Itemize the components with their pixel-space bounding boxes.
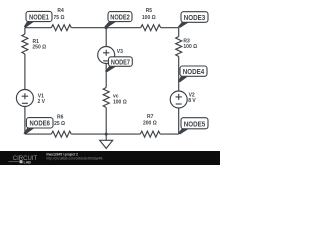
svg-text:75 Ω: 75 Ω bbox=[54, 15, 65, 21]
svg-text:8 V: 8 V bbox=[188, 98, 196, 104]
node NODE5 bbox=[178, 118, 208, 135]
svg-text:100 Ω: 100 Ω bbox=[142, 15, 156, 21]
svg-text:2 V: 2 V bbox=[38, 99, 46, 105]
svg-text:NODE4: NODE4 bbox=[183, 69, 205, 76]
V3 minus sign bbox=[103, 60, 109, 62]
wire middle column upper bbox=[105, 28, 107, 47]
resistor R6 bbox=[51, 131, 71, 137]
junction dot ground node bbox=[105, 133, 108, 136]
wire bottom-left to R6 bbox=[25, 133, 51, 135]
wire V2 to bottom-right corner bbox=[178, 108, 180, 134]
voltage source V2 bbox=[170, 91, 187, 108]
svg-text:R4: R4 bbox=[57, 8, 64, 14]
svg-text:NODE6: NODE6 bbox=[29, 121, 50, 128]
footer logo chip bbox=[20, 160, 23, 163]
node NODE4 bbox=[178, 66, 207, 82]
node NODE3 bbox=[178, 12, 208, 28]
resistor R4 bbox=[51, 25, 71, 31]
resistor R3 bbox=[176, 37, 182, 57]
wire vc to bottom bbox=[105, 108, 107, 135]
svg-text:R5: R5 bbox=[146, 8, 153, 14]
wire R1 to V1 bbox=[24, 54, 26, 90]
wire V3 to vc bbox=[105, 64, 107, 88]
svg-text:NODE5: NODE5 bbox=[184, 121, 206, 128]
svg-text:25 Ω: 25 Ω bbox=[54, 121, 65, 127]
wire R6 to ground junction bbox=[71, 133, 140, 135]
resistor R1 bbox=[22, 34, 28, 54]
svg-text:250 Ω: 250 Ω bbox=[32, 45, 46, 51]
wire top-left to R4 bbox=[25, 27, 51, 29]
svg-text:NODE7: NODE7 bbox=[111, 59, 130, 66]
node NODE2 bbox=[104, 12, 132, 28]
ground bbox=[100, 134, 113, 148]
svg-text:NODE2: NODE2 bbox=[110, 14, 130, 21]
svg-text:NODE3: NODE3 bbox=[184, 15, 206, 22]
node NODE1 bbox=[24, 11, 52, 27]
wire left column upper bbox=[24, 28, 26, 34]
footer logo squiggle bbox=[9, 161, 20, 163]
V3 plus sign bbox=[103, 50, 109, 56]
node NODE7 bbox=[105, 57, 132, 72]
junction dot node2 bbox=[105, 26, 108, 29]
V2 plus sign bbox=[176, 94, 182, 100]
node NODE6 bbox=[23, 118, 53, 135]
V1 plus sign bbox=[22, 93, 28, 99]
svg-text:100 Ω: 100 Ω bbox=[183, 44, 197, 50]
resistor vc bbox=[103, 88, 109, 108]
svg-text:R7: R7 bbox=[147, 114, 154, 120]
wire R3 to V2 bbox=[178, 57, 180, 92]
svg-text:V3: V3 bbox=[117, 49, 123, 55]
wire right column upper bbox=[178, 28, 180, 37]
svg-text:100 Ω: 100 Ω bbox=[113, 99, 127, 105]
svg-text:R6: R6 bbox=[57, 115, 64, 121]
footer bar bbox=[0, 151, 220, 165]
resistor R7 bbox=[140, 131, 160, 137]
svg-text:LAB: LAB bbox=[24, 160, 32, 164]
wire V1 to bottom-left corner bbox=[24, 107, 26, 135]
wire R7 to bottom-right corner bbox=[160, 133, 179, 135]
voltage source V1 bbox=[16, 90, 33, 107]
wire R5 to top-right corner bbox=[161, 27, 179, 29]
svg-text:http://circuitlab.com/c/8dv2u4: http://circuitlab.com/c/8dv2u4b93aa4fk bbox=[46, 157, 103, 161]
V2 minus sign bbox=[176, 103, 182, 105]
resistor R5 bbox=[141, 25, 161, 31]
voltage source V3 bbox=[98, 47, 115, 64]
V1 minus sign bbox=[22, 102, 28, 104]
wire R4 to node2 junction bbox=[71, 27, 140, 29]
svg-text:NODE1: NODE1 bbox=[29, 14, 49, 21]
svg-text:200 Ω: 200 Ω bbox=[143, 120, 157, 126]
